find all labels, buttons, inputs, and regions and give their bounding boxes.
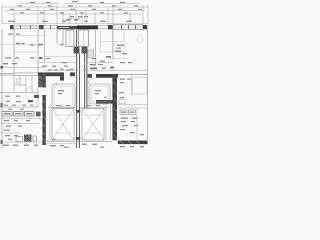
bottom-right room content (120, 110, 136, 114)
window band mid-left (44, 25, 57, 28)
label boxes row bottom-left (2, 112, 34, 116)
dimension text specks (8, 1, 142, 22)
wall block (39, 25, 44, 29)
dimension line row 1 (2, 4, 148, 24)
toilet left (17, 78, 21, 84)
central party wall (77, 30, 87, 148)
left lower rooms grid (0, 76, 38, 107)
mid horizontal walls left (0, 72, 64, 87)
dark mark left edge mid (1, 66, 4, 69)
main vertical wall lines (2, 29, 148, 148)
left edge wall end marks (1, 103, 3, 107)
X box right (82, 109, 104, 141)
wall piers flanking core (70, 72, 75, 76)
mid dimension rows (3, 61, 132, 70)
dark hatched block bottom-left (24, 135, 32, 142)
bedroom faint rect right (133, 78, 148, 95)
text cluster left-center above wall (48, 69, 70, 70)
pier text specks (60, 58, 96, 70)
bottom-left dimension rows (0, 119, 42, 142)
wall block right (143, 25, 147, 29)
oval fixture upper-right (137, 35, 143, 43)
washroom fixtures right (119, 79, 131, 99)
furniture/text marks upper-left (5, 34, 127, 60)
text specks above label boxes (4, 105, 34, 110)
hatch texture on thick walls (39, 77, 117, 140)
thick wall left-mid (38, 72, 64, 76)
text above X boxes (56, 105, 100, 106)
faint interior lines upper rooms (0, 30, 126, 59)
top exterior wall band (10, 25, 147, 30)
dimension ticks (2, 5, 148, 24)
level mark triangles (69, 19, 72, 21)
bottom-right dark band (118, 141, 148, 145)
window band right-center (98, 26, 108, 29)
door arc right of core (88, 78, 94, 84)
piers on central wall bottom (76, 110, 80, 113)
left thick wall column lower (42, 95, 45, 145)
small text lower-left rooms (5, 96, 33, 103)
mid horizontal walls right (96, 74, 148, 140)
bath room rounded rect left (52, 84, 75, 108)
bottom center baseline (44, 142, 112, 144)
column squares of core (74, 47, 80, 54)
window mullions (20, 25, 21, 28)
window band left (14, 25, 39, 28)
stair core upper rectangles (66, 30, 88, 47)
door arc left (26, 87, 32, 93)
X box left (52, 109, 74, 141)
small dark fixture near left wall (34, 95, 39, 98)
wall center-left with window gap (57, 26, 77, 29)
shaft gray box (88, 50, 94, 58)
bath room rounded rect right (89, 84, 110, 104)
wall block (108, 25, 113, 29)
window band right (113, 25, 143, 30)
wall block left (10, 25, 14, 29)
dark wall center-right (77, 25, 98, 29)
